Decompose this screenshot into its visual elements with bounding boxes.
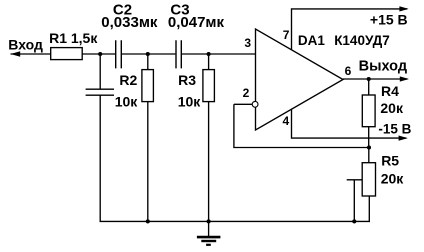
svg-text:-15 В: -15 В — [378, 122, 411, 137]
svg-text:К140УД7: К140УД7 — [334, 33, 390, 48]
svg-text:+15 В: +15 В — [370, 12, 408, 28]
svg-text:0,047мк: 0,047мк — [168, 14, 225, 31]
svg-text:20к: 20к — [381, 171, 405, 187]
svg-text:Выход: Выход — [359, 58, 407, 74]
svg-text:R3: R3 — [178, 72, 196, 88]
svg-text:7: 7 — [283, 28, 290, 42]
svg-text:R2: R2 — [119, 72, 137, 88]
svg-text:10к: 10к — [115, 93, 139, 109]
svg-text:20к: 20к — [380, 100, 404, 116]
svg-text:10к: 10к — [178, 93, 202, 109]
svg-text:R4: R4 — [381, 83, 399, 99]
svg-text:Вход: Вход — [8, 37, 43, 53]
svg-text:0,033мк: 0,033мк — [101, 14, 158, 31]
svg-text:3: 3 — [244, 36, 251, 50]
svg-text:6: 6 — [345, 64, 352, 78]
svg-text:R1 1,5к: R1 1,5к — [49, 30, 98, 46]
svg-text:2: 2 — [243, 86, 250, 100]
svg-text:R5: R5 — [381, 153, 399, 169]
svg-text:4: 4 — [283, 114, 290, 128]
svg-text:DA1: DA1 — [298, 33, 325, 48]
